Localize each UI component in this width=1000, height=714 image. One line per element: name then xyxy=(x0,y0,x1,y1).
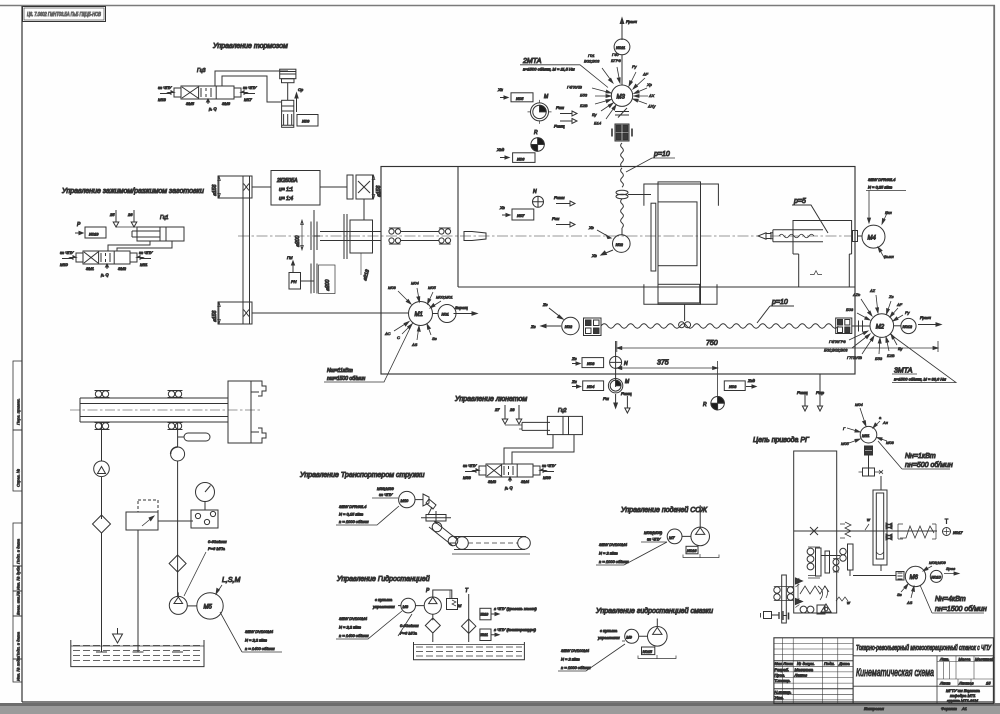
label 3МТА with leader xyxy=(890,334,956,383)
chuck body xyxy=(228,381,266,443)
gear pair ⌀200 upper xyxy=(295,210,317,263)
dim 750 xyxy=(617,340,938,352)
gear cluster extra bars xyxy=(808,551,839,576)
svg-text:375: 375 xyxy=(657,360,669,367)
gearbox 2К250БА xyxy=(271,171,320,206)
svg-text:nн=500 об/мин: nн=500 об/мин xyxy=(905,461,953,469)
svg-text:SEW DV100M4: SEW DV100M4 xyxy=(599,542,628,547)
svg-text:М11: М11 xyxy=(862,433,869,438)
svg-text:Инв. № подл.: Инв. № подл. xyxy=(16,656,21,681)
label с пульта управления (M9) xyxy=(597,628,625,641)
svg-text:Инв. № дубл.: Инв. № дубл. xyxy=(16,565,21,590)
gear train upper pair xyxy=(807,547,840,578)
svg-text:М10: М10 xyxy=(401,498,410,503)
input clutch pulley right ⌀156 xyxy=(347,175,382,199)
svg-text:М38;М39: М38;М39 xyxy=(377,486,394,491)
w sensor mark xyxy=(865,517,871,530)
svg-text:М08;М09: М08;М09 xyxy=(929,560,946,565)
M11 rays xyxy=(841,402,895,446)
Z screw left bearing block xyxy=(584,318,602,336)
label М08(М09) из ЧПУ xyxy=(641,530,667,542)
valve ЗМ5/ЗМ6 (brake distributor) xyxy=(160,86,255,99)
svg-text:nн=1500 об/мин: nн=1500 об/мин xyxy=(935,605,987,613)
svg-text:Zв: Zв xyxy=(888,294,894,299)
oil tank (hydro station) xyxy=(414,642,525,660)
dim ⌀156 bottom pulley xyxy=(212,302,220,324)
small spring w right xyxy=(836,597,851,605)
box И09 xyxy=(297,115,318,127)
output shaft to M6 xyxy=(853,572,904,581)
motor M5 xyxy=(187,593,223,619)
svg-text:ΔS: ΔS xyxy=(411,342,418,347)
svg-text:управления: управления xyxy=(372,604,396,609)
svg-text:Fсмщ: Fсмщ xyxy=(797,390,808,395)
node R (Z) xyxy=(703,397,724,410)
label М38;М39 из ЧПУ xyxy=(372,486,398,498)
svg-text:Масштаб: Масштаб xyxy=(975,656,994,661)
svg-text:27: 27 xyxy=(494,407,500,412)
svg-text:управления: управления xyxy=(597,635,621,640)
svg-text:И06: И06 xyxy=(517,156,525,161)
svg-text:И011: И011 xyxy=(616,45,625,50)
carriage top flange xyxy=(644,184,719,206)
svg-text:Fсмщ: Fсмщ xyxy=(554,124,565,129)
svg-text:М7: М7 xyxy=(669,535,675,540)
svg-text:И010: И010 xyxy=(481,613,489,617)
svg-text:⌀156: ⌀156 xyxy=(212,184,218,196)
svg-text:Б53: Б53 xyxy=(875,356,883,361)
svg-text:Г4П6ГР8: Г4П6ГР8 xyxy=(829,339,846,344)
svg-text:Р=6 МПа: Р=6 МПа xyxy=(208,546,226,551)
svg-text:Цепь привода РГ: Цепь привода РГ xyxy=(753,436,810,444)
svg-text:М4: М4 xyxy=(868,235,877,241)
conveyor drive shaft cross xyxy=(421,511,451,524)
svg-text:Бу: Бу xyxy=(592,112,598,117)
indexing shaft xyxy=(794,527,937,535)
svg-text:Перв. примен.: Перв. примен. xyxy=(16,398,21,425)
arrows 27 28 xyxy=(494,405,522,424)
M1 rays xyxy=(384,281,453,348)
institution cell xyxy=(946,688,981,703)
svg-text:2МТА: 2МТА xyxy=(522,58,542,65)
svg-text:⌀218: ⌀218 xyxy=(362,269,371,282)
spindle centre line xyxy=(238,235,852,237)
svg-text:с пульта: с пульта xyxy=(375,597,393,602)
svg-text:М8: М8 xyxy=(403,604,409,609)
tool centre cone xyxy=(758,233,771,239)
box И010 with label xyxy=(480,606,537,620)
svg-text:М05: М05 xyxy=(841,441,850,446)
node R (X) xyxy=(531,130,544,151)
title block name cells xyxy=(853,656,993,704)
spindle shaft xyxy=(314,232,381,241)
svg-text:И08: И08 xyxy=(587,361,595,366)
svg-text:Sвращ: Sвращ xyxy=(455,305,468,310)
label 0-60л/мин leader xyxy=(184,539,227,596)
filter diamond left xyxy=(93,515,111,652)
sensor И02 (X) xyxy=(613,235,631,253)
gear ⌀200 lower xyxy=(311,263,335,294)
svg-text:ΔF: ΔF xyxy=(896,302,903,307)
svg-text:р, Q: р, Q xyxy=(100,272,109,277)
box И06 xyxy=(496,147,535,162)
svg-text:ΔZс: ΔZс xyxy=(852,292,860,297)
label SEW DFR63L4 (M10) xyxy=(336,504,399,525)
title block left texts xyxy=(775,661,851,700)
svg-text:Копировал: Копировал xyxy=(864,706,885,711)
svg-text:И02: И02 xyxy=(616,242,624,247)
clamp pipes xyxy=(108,241,172,251)
spindle gear big ⌀218 xyxy=(344,214,373,282)
svg-text:Nн=4кВт: Nн=4кВт xyxy=(935,596,966,603)
svg-text:Fу: Fу xyxy=(632,64,637,69)
accumulator capsule xyxy=(178,433,210,441)
svg-text:р, Q: р, Q xyxy=(208,106,217,111)
gearbox belt left column xyxy=(218,176,252,324)
svg-text:М04: М04 xyxy=(855,402,864,407)
node N (Z) xyxy=(610,341,628,387)
svg-text:Управление тормозом: Управление тормозом xyxy=(212,43,288,50)
svg-text:М38: М38 xyxy=(463,475,472,480)
svg-text:М9: М9 xyxy=(626,635,632,640)
label p=5 xyxy=(792,198,828,233)
svg-text:из ЧПУ: из ЧПУ xyxy=(463,463,477,468)
top-left corner stamp box xyxy=(23,7,106,22)
svg-text:N = 0,25 кВт: N = 0,25 кВт xyxy=(868,185,893,190)
svg-text:И017: И017 xyxy=(953,530,963,535)
svg-text:Г01: Г01 xyxy=(588,53,595,58)
svg-text:N = 2,2 кВт: N = 2,2 кВт xyxy=(339,625,362,630)
page scan bottom strip xyxy=(0,703,1000,714)
filters M8 xyxy=(425,614,476,642)
svg-text:⌀200: ⌀200 xyxy=(325,279,331,291)
svg-text:Кинематическая схема: Кинематическая схема xyxy=(856,667,934,679)
svg-text:группа МТ1-31М: группа МТ1-31М xyxy=(947,698,979,703)
ratchet spring xyxy=(800,586,829,598)
svg-text:3МТА: 3МТА xyxy=(894,368,913,375)
svg-text:Fстм: Fстм xyxy=(554,195,565,200)
suction valve circle xyxy=(171,422,185,597)
svg-text:ΔF: ΔF xyxy=(642,72,649,77)
svg-text:Г7П2ЛВ: Г7П2ЛВ xyxy=(847,355,862,360)
left margin stamp group 2 (Подп. и дата / Инв blocks) xyxy=(13,523,22,682)
svg-text:И01: И01 xyxy=(442,312,449,317)
bevel gears M11 xyxy=(859,468,884,490)
chuck cone xyxy=(464,232,486,241)
sensor И011 xyxy=(614,39,630,85)
svg-text:ΔS: ΔS xyxy=(906,600,913,605)
svg-text:ЗМ6: ЗМ6 xyxy=(222,101,231,106)
svg-text:0-60л/мин: 0-60л/мин xyxy=(208,539,227,544)
svg-text:Zпд: Zпд xyxy=(747,378,756,383)
svg-text:М3: М3 xyxy=(617,94,626,100)
svg-text:n = 1000 об/мин: n = 1000 об/мин xyxy=(599,559,629,564)
box И08 xyxy=(571,356,604,368)
left verify shaft with bearings xyxy=(774,575,794,623)
T line xyxy=(465,588,469,642)
svg-text:Fш: Fш xyxy=(603,396,609,401)
svg-text:Взам. инв.№: Взам. инв.№ xyxy=(16,591,21,615)
oil tank left xyxy=(71,640,204,667)
motor M3 xyxy=(611,85,632,106)
svg-text:И07: И07 xyxy=(517,213,525,218)
Z rays Zс Zв xyxy=(530,302,563,329)
svg-text:0-60л/мин: 0-60л/мин xyxy=(400,623,419,628)
svg-text:n=1500 об/мин, М = 36,6 Нм: n=1500 об/мин, М = 36,6 Нм xyxy=(894,377,946,382)
label SEW M5 xyxy=(220,612,282,652)
title block outer xyxy=(774,638,994,704)
svg-text:Г: Г xyxy=(843,426,846,431)
svg-text:Бу: Бу xyxy=(898,346,904,351)
Fрасч arrow right of M2 xyxy=(918,315,941,326)
svg-text:n = 1000 об/мин: n = 1000 об/мин xyxy=(561,665,591,670)
svg-text:И016: И016 xyxy=(687,548,697,553)
svg-text:РН: РН xyxy=(291,279,297,284)
svg-text:T: T xyxy=(465,588,469,594)
drawbar tube xyxy=(70,398,262,422)
label SEW DV100M4 (M7) xyxy=(596,542,667,565)
headstock partition xyxy=(458,167,855,288)
svg-text:⌀156: ⌀156 xyxy=(212,310,218,322)
Z axis ballscrew xyxy=(601,324,838,328)
check valves on shaft xyxy=(886,523,892,540)
label SEW DFR63L4 (M4) xyxy=(866,177,906,223)
M11 coupling + shaft xyxy=(865,446,873,468)
svg-text:Г40: Г40 xyxy=(612,52,619,57)
svg-text:Г4П6ЛВ: Г4П6ЛВ xyxy=(567,85,582,90)
svg-text:Nн=1кВт: Nн=1кВт xyxy=(905,453,936,460)
svg-text:u= 1:1: u= 1:1 xyxy=(279,187,293,193)
svg-text:SEW DFR63L4: SEW DFR63L4 xyxy=(339,504,367,509)
carriage nut bar xyxy=(651,203,656,271)
svg-text:из ЧПУ: из ЧПУ xyxy=(647,537,661,542)
svg-text:n = 1400 об/мин: n = 1400 об/мин xyxy=(339,633,369,638)
svg-text:Листов: Листов xyxy=(958,681,974,686)
svg-text:Fрасч: Fрасч xyxy=(920,315,931,320)
svg-text:а: а xyxy=(879,415,882,420)
M3 rays left/top xyxy=(584,52,656,109)
pressure gauge xyxy=(196,483,215,511)
bottom gear pair xyxy=(800,605,825,614)
svg-text:15: 15 xyxy=(986,681,991,686)
svg-text:Sв: Sв xyxy=(432,336,437,341)
svg-text:М05: М05 xyxy=(428,285,437,290)
motor M11 xyxy=(860,426,877,443)
detent triangle xyxy=(821,604,831,612)
svg-text:Sрев: Sрев xyxy=(946,566,955,571)
left margin stamp group 1 (Перв. примен / Справ. No) xyxy=(13,361,22,491)
svg-text:И04: И04 xyxy=(587,384,595,389)
svg-text:в ЧПУ (уровень масла): в ЧПУ (уровень масла) xyxy=(494,606,537,611)
svg-text:Подп. и дата: Подп. и дата xyxy=(16,538,21,564)
main machine outline box xyxy=(381,167,855,375)
svg-text:М03: М03 xyxy=(388,285,397,290)
svg-text:SEW DV100M4: SEW DV100M4 xyxy=(245,629,274,634)
svg-text:Гц3: Гц3 xyxy=(197,68,206,74)
svg-text:из ЧПУ: из ЧПУ xyxy=(243,85,257,90)
pump СОЖ xyxy=(682,505,710,546)
svg-text:Управление Гидростанцией: Управление Гидростанцией xyxy=(336,575,430,583)
svg-text:Xр: Xр xyxy=(646,82,653,87)
svg-text:p=5: p=5 xyxy=(793,198,806,205)
box И04 (Z) xyxy=(571,379,604,391)
F arrows below tailstock xyxy=(797,374,825,411)
svg-text:N = 2 кВт: N = 2 кВт xyxy=(599,551,618,556)
svg-text:И019: И019 xyxy=(89,232,99,237)
svg-text:Б2В: Б2В xyxy=(580,103,588,108)
svg-text:М10: М10 xyxy=(60,262,69,267)
svg-text:SEW DFR63L4: SEW DFR63L4 xyxy=(868,177,896,182)
cylinder Гц1 xyxy=(116,215,184,241)
svg-text:N = 2 кВт: N = 2 кВт xyxy=(561,657,580,662)
svg-text:Гц2: Гц2 xyxy=(558,408,567,414)
motor M2 xyxy=(870,314,894,338)
Sвращ arrow xyxy=(454,305,478,315)
svg-text:ΔX: ΔX xyxy=(648,93,655,98)
svg-text:Подп. и дата: Подп. и дата xyxy=(16,631,21,657)
right small cells texts xyxy=(939,656,994,685)
clamp valve ЗМ1/ЗМ2 xyxy=(62,251,151,264)
svg-text:ГМ: ГМ xyxy=(287,255,293,260)
svg-text:N = 0,15 кВт: N = 0,15 кВт xyxy=(339,512,364,517)
M4 Вкл/Выкл arrows xyxy=(878,210,895,259)
svg-text:Малахова: Малахова xyxy=(795,667,814,672)
carriage bottom flange xyxy=(644,284,717,304)
handwheel plug xyxy=(761,611,789,620)
svg-text:Xс: Xс xyxy=(588,225,594,230)
svg-text:И09: И09 xyxy=(302,119,310,124)
svg-text:И015: И015 xyxy=(643,649,653,654)
svg-text:М03: М03 xyxy=(886,440,895,445)
level mark triangle xyxy=(113,628,123,643)
title block left table xyxy=(774,638,853,704)
svg-text:Выкл: Выкл xyxy=(884,254,895,259)
svg-text:Б01;В02;В03: Б01;В02;В03 xyxy=(824,348,848,353)
cylinder Гц2 pipes xyxy=(504,435,574,464)
carriage inner window xyxy=(658,202,697,266)
svg-text:Справ. №: Справ. № xyxy=(16,468,21,487)
svg-text:Xн: Xн xyxy=(497,87,504,92)
box И016 + bracket xyxy=(683,546,719,558)
pump P xyxy=(416,588,452,614)
Fрасч arrow above M3 xyxy=(620,18,637,40)
svg-text:Zс: Zс xyxy=(542,302,547,307)
svg-text:И02: И02 xyxy=(565,324,573,329)
M2 rays xyxy=(824,288,910,361)
turret slide xyxy=(873,490,887,571)
drawing frame bottom border xyxy=(22,701,994,703)
svg-text:М08(М09): М08(М09) xyxy=(644,530,663,535)
svg-text:Ал: Ал xyxy=(882,420,889,425)
wire input shaft down xyxy=(363,199,365,220)
svg-text:p=10: p=10 xyxy=(771,299,788,306)
svg-text:ΔС: ΔС xyxy=(384,331,391,336)
label Nн=4кВт (M6) xyxy=(920,585,987,613)
svg-text:R: R xyxy=(703,402,707,408)
svg-text:М11: М11 xyxy=(140,262,147,267)
svg-text:М6: М6 xyxy=(910,575,919,581)
X rays Xс Xв xyxy=(588,225,613,258)
svg-text:БГР8: БГР8 xyxy=(611,58,621,63)
svg-text:u= 1:4: u= 1:4 xyxy=(279,196,293,202)
flow filter diamond mid xyxy=(169,555,186,572)
svg-text:w: w xyxy=(847,600,851,605)
svg-text:из ЧПУ: из ЧПУ xyxy=(158,85,172,90)
svg-text:Т.контр.: Т.контр. xyxy=(775,678,791,683)
svg-text:Fрасч: Fрасч xyxy=(626,19,637,24)
label Nн=1кВт (M11) xyxy=(878,441,953,469)
svg-text:Ц6. 7.0602 ГМНТ03.БА ПьБ ГЩЦБ-: Ц6. 7.0602 ГМНТ03.БА ПьБ ГЩЦБ-НОВ xyxy=(27,12,102,18)
page scan top edge xyxy=(0,5,995,7)
tailstock body xyxy=(793,221,852,288)
svg-text:Nш=11кВт: Nш=11кВт xyxy=(327,368,353,374)
X screw drive gear xyxy=(616,190,651,199)
node N (X) xyxy=(533,189,544,207)
svg-text:Пров.: Пров. xyxy=(775,672,786,677)
svg-text:М: М xyxy=(625,379,630,385)
svg-text:И012: И012 xyxy=(903,324,913,329)
svg-text:R: R xyxy=(534,130,538,136)
svg-text:Б14: Б14 xyxy=(594,121,602,126)
spindle bearing right xyxy=(401,228,451,244)
svg-text:Zн: Zн xyxy=(571,379,577,384)
svg-text:М00;М01: М00;М01 xyxy=(436,295,453,300)
spindle bearing left xyxy=(389,228,401,244)
svg-text:М1: М1 xyxy=(415,312,423,318)
svg-text:Fу: Fу xyxy=(905,310,910,315)
node M (X) xyxy=(528,94,552,124)
drawbar rollers xyxy=(95,391,183,430)
svg-text:В02;В03: В02;В03 xyxy=(584,59,600,64)
svg-text:Xв: Xв xyxy=(591,253,597,258)
below-frame notes xyxy=(864,706,967,711)
svg-text:М5: М5 xyxy=(204,605,213,611)
svg-text:N: N xyxy=(624,361,628,367)
box И05 xyxy=(497,87,533,102)
svg-text:N: N xyxy=(533,189,537,195)
brake pipe runs xyxy=(215,71,288,102)
label p=10 upper with leader xyxy=(626,151,675,172)
wire shaft to gearbox xyxy=(252,186,347,188)
svg-text:N = 2,2 кВт: N = 2,2 кВт xyxy=(245,638,268,643)
motor M1 xyxy=(409,302,433,326)
svg-text:М04: М04 xyxy=(411,281,420,286)
svg-text:750: 750 xyxy=(706,340,718,347)
svg-text:ЗМ2: ЗМ2 xyxy=(118,266,127,271)
svg-text:Б2В: Б2В xyxy=(887,353,895,358)
svg-text:из ЧПУ: из ЧПУ xyxy=(542,463,556,468)
svg-text:Xв: Xв xyxy=(499,205,505,210)
svg-text:Sв: Sв xyxy=(897,592,902,597)
svg-text:ЗМ4: ЗМ4 xyxy=(521,479,530,484)
svg-text:И03: И03 xyxy=(729,384,737,389)
svg-text:И011: И011 xyxy=(481,633,489,637)
svg-text:Лист: Лист xyxy=(939,681,951,686)
F arrows below M node xyxy=(603,391,632,413)
svg-text:А1: А1 xyxy=(961,706,967,711)
drawing frame left border xyxy=(21,6,23,702)
svg-text:Б53: Б53 xyxy=(580,93,588,98)
box И015 + bracket xyxy=(638,647,676,659)
svg-text:nш=1500 об/мин: nш=1500 об/мин xyxy=(327,376,366,382)
pump смазки xyxy=(639,619,667,647)
arrow Cр xyxy=(295,87,304,112)
svg-text:Масса: Масса xyxy=(959,656,972,661)
svg-text:Гц1: Гц1 xyxy=(160,215,169,221)
valve wire labels xyxy=(158,85,257,111)
svg-text:М2: М2 xyxy=(876,324,885,330)
svg-text:L,S,M: L,S,M xyxy=(222,577,240,584)
